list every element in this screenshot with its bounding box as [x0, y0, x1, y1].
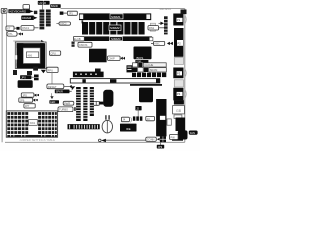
connector header col 3 [90, 87, 94, 116]
connector pin header bar bottom [68, 124, 100, 129]
connector right box 1 [173, 14, 186, 26]
node label R [55, 90, 72, 94]
node CPU inner label [27, 52, 39, 58]
svg-text:LED: LED [50, 100, 55, 104]
node three jumpers [133, 116, 143, 120]
svg-text:JPX: JPX [21, 75, 26, 79]
node 2x2 cells [160, 136, 166, 142]
node label O [49, 51, 60, 56]
chip bottom black box [120, 124, 137, 132]
svg-text:IDE: IDE [126, 127, 131, 131]
connector SIMM bar 1 [79, 13, 151, 20]
socket CPU top bar [17, 43, 44, 48]
node label4 [24, 104, 35, 109]
battery [103, 90, 113, 107]
connector gray box 2 [174, 80, 183, 87]
svg-text:JUMPER SETTINGS TABLE: JUMPER SETTINGS TABLE [19, 138, 55, 142]
node socket notch [15, 55, 17, 59]
socket CPU inner area [23, 48, 40, 63]
node label P [47, 67, 58, 84]
node jumper pair [72, 42, 75, 47]
wire dash [14, 27, 16, 29]
svg-text:XT: XT [7, 27, 11, 31]
svg-text:PWR: PWR [64, 101, 70, 105]
svg-text:RESET: RESET [48, 85, 57, 89]
node label right of chips [148, 26, 164, 31]
wire PCB right edge [184, 9, 186, 143]
connector header col 2 [83, 87, 87, 121]
node vertical label bar [159, 16, 168, 34]
node label1 left column [20, 75, 34, 79]
connector short slot stub [130, 84, 162, 86]
chip label DRAM bank [50, 4, 61, 8]
chip sub-bar [135, 60, 148, 63]
svg-text:486: 486 [28, 53, 33, 57]
node tick [82, 20, 84, 23]
svg-text:PW: PW [171, 135, 176, 139]
svg-text:CPU: CPU [50, 51, 56, 55]
node jumper 2x [34, 75, 39, 81]
svg-text:P4: P4 [177, 92, 181, 96]
node row1 box A [6, 26, 14, 31]
svg-text:KBC: KBC [155, 42, 160, 46]
wire bottom callout with bowtie [99, 139, 146, 142]
chip small [95, 69, 101, 74]
node small bit 2 [27, 71, 32, 75]
connector right box 2 [174, 28, 184, 57]
socket CPU bottom bar [17, 63, 43, 68]
node small bit 3 [33, 67, 38, 71]
switch jumper grid outer [6, 111, 57, 137]
connector black bar3 [73, 72, 104, 78]
connector right box 5 [174, 100, 184, 104]
node label3 [19, 98, 38, 103]
chip U3 big QFP [89, 49, 107, 63]
chip cache row B [132, 68, 166, 72]
connector SIMM bar 2 [85, 36, 153, 41]
node row1 box B [16, 27, 19, 30]
node small top box [23, 5, 30, 10]
node far right label [189, 131, 198, 135]
svg-text:SW1: SW1 [30, 121, 36, 125]
node battery label [92, 101, 103, 105]
svg-text:TURBO: TURBO [59, 108, 68, 112]
svg-text:SRAM: SRAM [150, 68, 158, 72]
chip U5 square [139, 88, 153, 103]
svg-text:BANK: BANK [51, 4, 58, 8]
node top-left connector box [1, 8, 7, 13]
svg-text:P1: P1 [177, 18, 181, 22]
node pointer triangle below socket [41, 70, 46, 74]
svg-text:CHIP: CHIP [109, 57, 115, 61]
svg-text:SIMM1: SIMM1 [111, 15, 121, 19]
node right label near battery [96, 101, 99, 105]
svg-text:XTL: XTL [8, 32, 13, 36]
wire long left callout line [6, 13, 8, 111]
chip DRAM row of 9 [82, 22, 145, 35]
node gray box right [150, 23, 155, 31]
svg-text:OSC2: OSC2 [60, 23, 67, 26]
node row1 box C [21, 26, 39, 31]
socket CPU right bar [40, 43, 45, 68]
node center label on chips [109, 25, 121, 30]
node small box right of bar [34, 11, 37, 14]
chip tall bar [156, 99, 166, 136]
connector right box 4 [173, 88, 186, 101]
chip DIP column B [46, 10, 51, 27]
svg-text:FAN: FAN [190, 131, 195, 135]
wire PCB bottom edge [5, 141, 185, 143]
svg-text:DRAM: DRAM [22, 16, 31, 20]
socket CPU outer [15, 42, 46, 68]
svg-text:GB: GB [176, 109, 182, 113]
svg-text:JP1: JP1 [68, 12, 73, 16]
connector bottom-right blob [178, 130, 188, 139]
speaker ticks [105, 115, 110, 120]
node label L [63, 101, 74, 105]
svg-text:OSC1: OSC1 [22, 26, 30, 30]
node label E [67, 11, 77, 15]
node label T [146, 137, 160, 142]
node pointer boxlet [60, 12, 68, 15]
svg-text:SIMM3: SIMM3 [111, 37, 121, 41]
node label N [49, 100, 59, 104]
node label M [58, 107, 76, 112]
chip cache row C [132, 73, 166, 78]
switch grid white slits [10, 112, 55, 137]
node white label over blob [170, 135, 179, 140]
node grid center label [29, 120, 38, 126]
node label Q [47, 84, 75, 90]
svg-text:U1 U2: U1 U2 [39, 1, 47, 5]
connector GB white box [173, 106, 185, 119]
node label I [146, 116, 155, 121]
wire PCB top edge [61, 8, 185, 10]
svg-text:JP6: JP6 [20, 98, 25, 102]
svg-text:SIMM2: SIMM2 [110, 26, 120, 30]
svg-text:CMOS: CMOS [79, 43, 88, 47]
chip label L1 [21, 16, 37, 21]
svg-text:CONN: CONN [147, 138, 155, 142]
node label left of bar2 [74, 36, 85, 41]
socket CPU left bar [17, 43, 24, 66]
connector ISA slot [70, 79, 160, 83]
oscillator crystal [127, 65, 133, 72]
svg-text:P2: P2 [178, 42, 182, 46]
node label below E [56, 22, 70, 26]
node label2 [21, 93, 39, 98]
svg-text:ELCB: ELCB [74, 37, 81, 41]
wire down arrow [50, 93, 53, 99]
node top-right corner blob [181, 10, 187, 15]
svg-text:JP7: JP7 [25, 104, 30, 108]
connector right box 3 [173, 68, 186, 79]
node label F [78, 42, 92, 47]
svg-text:CACHE: CACHE [144, 63, 153, 67]
svg-text:486-SP10: 486-SP10 [160, 7, 172, 11]
chip U4 BIOS blob [134, 47, 152, 61]
svg-text:RN1: RN1 [149, 26, 155, 30]
node label G with diamond [108, 56, 126, 61]
speaker circle [102, 120, 112, 133]
wire arrow above socket [13, 40, 44, 43]
connector header col 1 [76, 87, 81, 121]
node bowtie arrow mid-right [167, 42, 173, 45]
node row2 box D [7, 32, 23, 37]
node label J [121, 117, 131, 122]
node bottom label below border [157, 142, 164, 149]
svg-text:FPU: FPU [48, 68, 53, 72]
svg-text:KEYBOARD: KEYBOARD [10, 9, 28, 13]
svg-text:JP5: JP5 [22, 93, 27, 97]
node small white label right of tbar [167, 119, 171, 125]
node label H [151, 41, 165, 45]
connector gray box 1 [174, 58, 183, 65]
chip label bar KB [8, 9, 33, 13]
svg-text:SPKR: SPKR [56, 90, 63, 94]
wire PCB left edge [1, 14, 3, 143]
node small label mid-bottom [135, 106, 141, 120]
node small bit 1 [13, 70, 17, 75]
svg-text:JP9: JP9 [158, 146, 163, 149]
chip label top pair left [38, 1, 50, 10]
chip cache row A [133, 63, 167, 67]
connector bar under blob [172, 138, 183, 140]
chip DIP column A [40, 10, 45, 30]
connector right box 6 [176, 118, 186, 132]
svg-text:P3: P3 [177, 72, 181, 76]
switch grid cells [7, 112, 57, 137]
svg-text:BIOS: BIOS [137, 56, 144, 60]
chip big black left [18, 80, 33, 88]
